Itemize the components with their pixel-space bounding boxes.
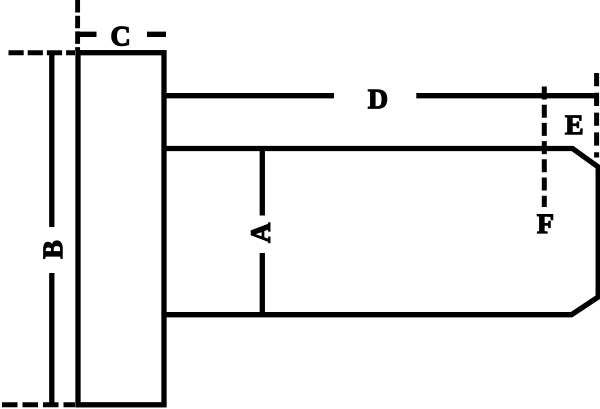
dimension line B (vertical, two segments): [49, 53, 54, 227]
extension dashed line bottom left (head bottom): [2, 402, 75, 407]
extension dashed line above head left edge: [75, 0, 80, 51]
dashed line F (vertical): [542, 87, 547, 208]
bolt head outline: [78, 53, 164, 405]
dimension line A (vertical, two segments): [260, 149, 265, 216]
extension dashed line top left (head top): [9, 50, 76, 55]
bolt shank outline with chamfered tip: [164, 149, 598, 315]
dimension line D (two segments): [164, 93, 334, 98]
dashed line E (vertical, shank tip extension): [594, 73, 599, 158]
label C: [112, 27, 129, 46]
label A (rotated): [251, 223, 269, 243]
label E: [565, 116, 582, 134]
label B (rotated): [44, 241, 62, 258]
label F: [537, 215, 552, 233]
dimension line C (two segments): [78, 32, 97, 37]
label D: [368, 90, 386, 108]
